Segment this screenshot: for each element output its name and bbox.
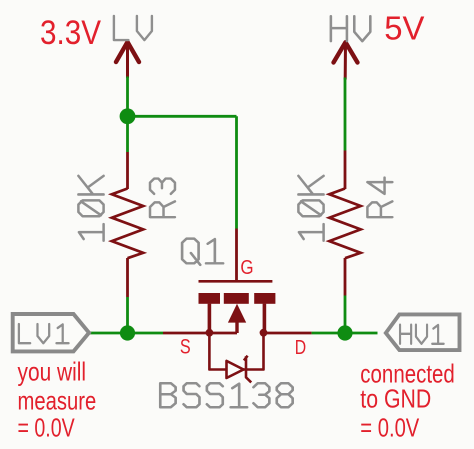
Q1 source stub	[208, 304, 212, 333]
junction LV net to gate	[120, 108, 136, 124]
designator Q1	[182, 239, 223, 265]
pin R4 bottom	[344, 258, 347, 296]
svg-text:= 0.0V: = 0.0V	[360, 412, 420, 442]
supply arrow 3.3V/LV	[116, 42, 139, 77]
svg-text:to GND: to GND	[360, 384, 431, 414]
resistor R3 body	[112, 189, 143, 259]
pin name HV1	[400, 325, 444, 344]
svg-text:G: G	[240, 257, 253, 279]
svg-text:S: S	[180, 336, 191, 359]
svg-text:= 0.0V: = 0.0V	[18, 412, 76, 442]
value 10K of R3	[78, 176, 103, 241]
junction Q1 drain dot	[260, 329, 268, 337]
junction Q1 source dot	[206, 329, 214, 337]
wire LV rail green upper	[126, 77, 129, 153]
pin R3 top	[126, 152, 129, 189]
connector LV1	[13, 314, 89, 351]
Q1 bulk stem	[235, 322, 238, 333]
Q1 drain stub	[263, 304, 267, 333]
designator R4	[367, 178, 392, 218]
svg-text:3.3V: 3.3V	[40, 14, 101, 52]
Q1 body pad	[224, 293, 249, 304]
supply arrow HV/5V	[334, 42, 358, 78]
net label LV	[114, 16, 152, 40]
Q1 bulk arrow	[228, 304, 246, 323]
svg-text:measure: measure	[18, 386, 97, 416]
wire gate net vertical	[235, 116, 238, 228]
pin R3 bottom	[126, 258, 129, 297]
designator R3	[150, 179, 175, 218]
pin Q1 drain wire	[264, 332, 312, 335]
svg-text:5V: 5V	[384, 10, 424, 47]
wire LV1 net horizontal	[89, 332, 164, 335]
junction node HV1	[337, 325, 352, 340]
op Q1 gate bar	[199, 280, 273, 283]
junction node LV1	[120, 325, 135, 340]
Q1 source pad	[199, 293, 221, 304]
svg-text:D: D	[295, 337, 306, 359]
Q1 drain pad	[254, 293, 275, 304]
wire LV1 net vertical	[126, 297, 129, 333]
diode Q1 body diode	[209, 333, 263, 382]
resistor R4 body	[329, 189, 360, 259]
wire gate net horizontal	[128, 115, 237, 118]
pin name LV1	[19, 324, 69, 343]
connector HV1	[386, 314, 460, 350]
wire HV rail green	[344, 78, 347, 151]
pin Q1 gate	[235, 229, 238, 281]
svg-text:you will: you will	[18, 357, 87, 387]
value BSS138	[160, 383, 292, 407]
pin R4 top	[344, 151, 347, 190]
pin Q1 source wire	[163, 332, 237, 335]
value 10K of R4	[298, 176, 323, 241]
wire HV1 net vertical	[344, 296, 347, 334]
wire HV1 net horizontal	[312, 332, 378, 335]
net label HV	[331, 16, 370, 41]
